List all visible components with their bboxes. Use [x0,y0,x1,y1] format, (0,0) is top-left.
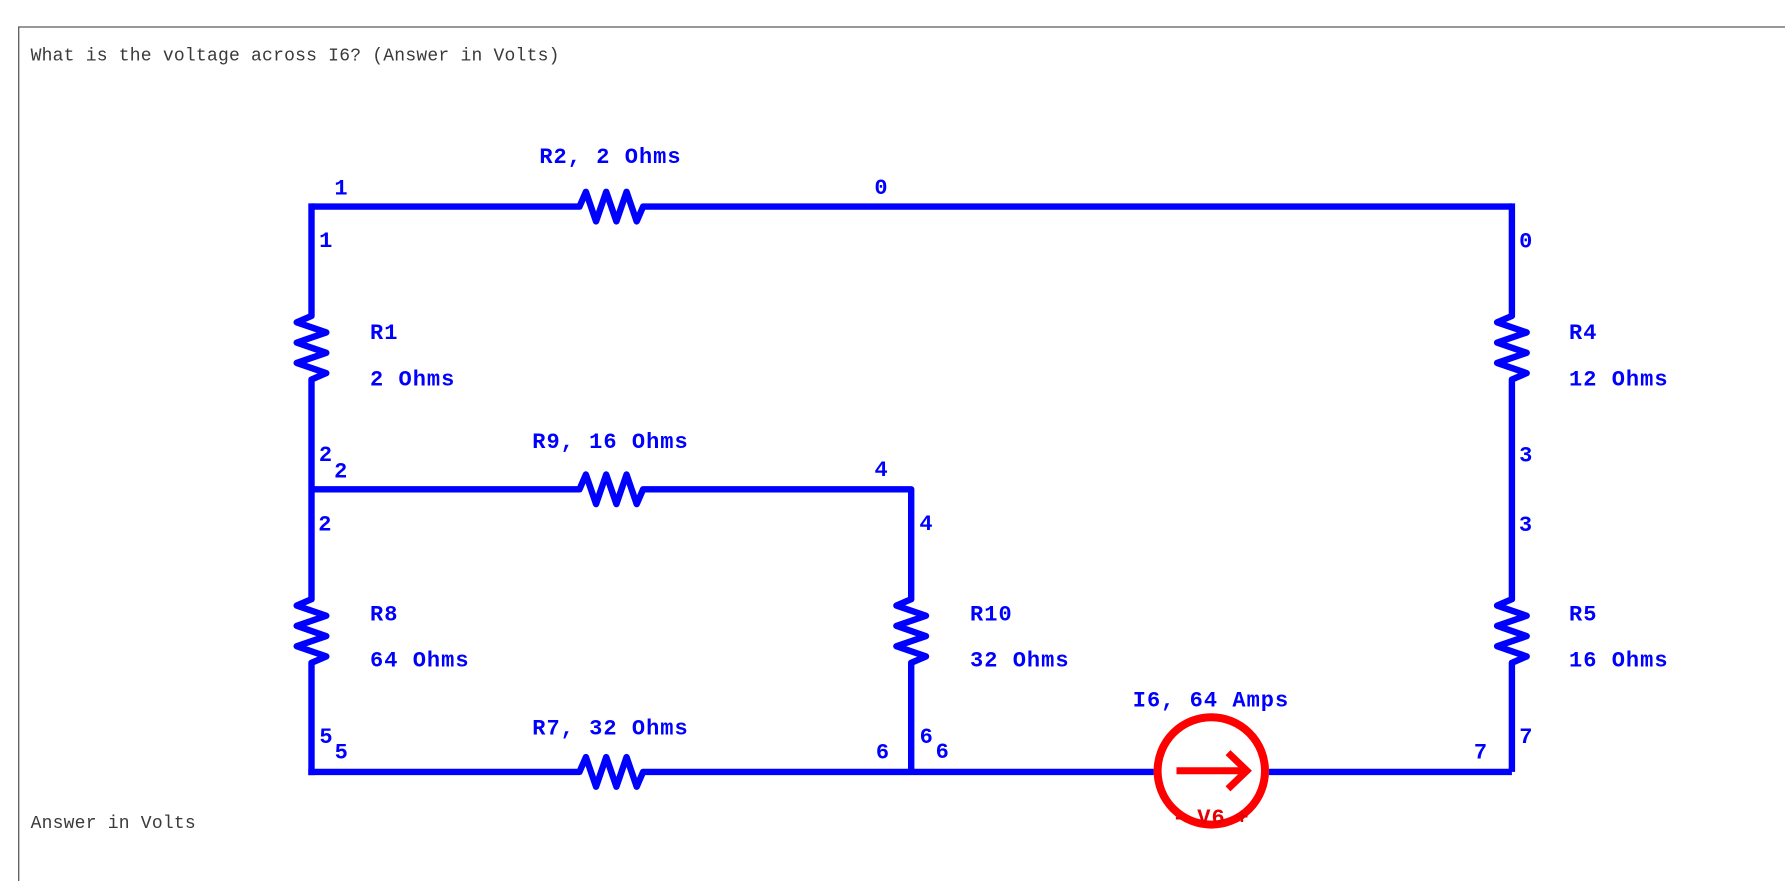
svg-text:16 Ohms: 16 Ohms [1569,649,1669,674]
svg-text:What is the voltage across I6?: What is the voltage across I6? (Answer i… [31,47,560,67]
svg-text:12 Ohms: 12 Ohms [1569,368,1669,393]
svg-text:2: 2 [319,443,333,468]
svg-text:R4: R4 [1569,321,1597,346]
svg-text:5: 5 [319,725,333,750]
svg-text:V6: V6 [1197,806,1225,831]
svg-text:6: 6 [920,725,934,750]
svg-text:2 Ohms: 2 Ohms [370,368,455,393]
svg-text:3: 3 [1519,444,1533,469]
svg-text:7: 7 [1519,725,1533,750]
svg-text:2: 2 [334,460,348,485]
svg-text:R8: R8 [370,603,398,628]
svg-text:R5: R5 [1569,603,1597,628]
svg-text:5: 5 [335,741,349,766]
svg-text:R2, 2 Ohms: R2, 2 Ohms [539,145,681,170]
svg-text:-: - [1172,806,1186,831]
svg-text:2: 2 [318,513,332,538]
svg-text:3: 3 [1519,513,1533,538]
svg-text:4: 4 [874,458,888,483]
svg-text:6: 6 [876,741,890,766]
svg-text:4: 4 [919,512,933,537]
svg-text:Answer in Volts: Answer in Volts [31,814,196,834]
svg-text:1: 1 [319,229,333,254]
svg-text:R9, 16 Ohms: R9, 16 Ohms [532,430,689,455]
svg-text:R7, 32 Ohms: R7, 32 Ohms [532,717,689,742]
svg-text:I6, 64 Amps: I6, 64 Amps [1133,689,1290,714]
svg-text:32 Ohms: 32 Ohms [970,649,1070,674]
svg-text:+: + [1235,806,1249,831]
svg-text:0: 0 [874,176,888,201]
svg-text:R10: R10 [970,603,1013,628]
svg-text:1: 1 [334,177,348,202]
svg-text:R1: R1 [370,321,398,346]
svg-text:0: 0 [1519,230,1533,255]
svg-text:64 Ohms: 64 Ohms [370,649,470,674]
svg-text:6: 6 [936,740,950,765]
svg-text:7: 7 [1474,741,1488,766]
